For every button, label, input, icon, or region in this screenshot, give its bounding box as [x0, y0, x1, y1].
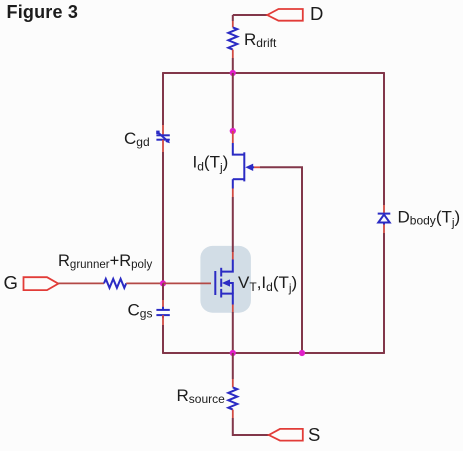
lead below current source — [232, 189, 234, 198]
port S — [269, 429, 303, 441]
wire left rail upper — [162, 73, 164, 125]
wire center rail to current source — [232, 73, 234, 131]
wire arrow row to inner right rail — [260, 167, 302, 353]
wire left rail middle — [162, 152, 164, 283]
gate bar — [214, 271, 216, 295]
diode D_body — [378, 214, 391, 225]
capacitor C_gd (variable) — [156, 132, 169, 142]
lead below C_gd — [162, 140, 164, 152]
wire D down to R_drift — [232, 15, 234, 21]
lead above MOSFET drain — [232, 252, 234, 260]
wire R_drift to top rail — [232, 58, 234, 73]
wire bottom rail to R_source — [232, 353, 234, 379]
channel segments — [220, 268, 222, 277]
lead into current source — [232, 131, 234, 143]
node dot center — [230, 128, 236, 134]
wire G port to resistor — [58, 282, 104, 284]
wire right rail upper — [383, 73, 385, 205]
node dot top rail — [230, 70, 236, 76]
source stub — [221, 294, 233, 305]
capacitor C_gs — [156, 307, 169, 318]
wire top-left corner to D port — [233, 14, 267, 16]
lead to C_gd — [162, 125, 164, 135]
wire left rail below gate node — [162, 283, 164, 300]
node dot bottom inner — [299, 350, 305, 356]
svg-text:D: D — [310, 3, 323, 24]
resistor R_drift — [228, 27, 237, 49]
node dot bottom center — [230, 350, 236, 356]
wire left rail bottom — [162, 325, 164, 353]
bulk arrow — [222, 279, 230, 286]
lead below R_drift — [232, 50, 234, 58]
lead from current source arrow — [254, 166, 260, 168]
node dot gate — [160, 280, 166, 286]
wire resistor to gate node — [126, 282, 163, 284]
lead below R_source — [232, 410, 234, 418]
port D — [267, 9, 303, 21]
svg-text:S: S — [308, 424, 320, 445]
wire top rail — [162, 72, 385, 74]
svg-text:G: G — [4, 272, 18, 293]
wire current source to MOSFET drain — [232, 197, 234, 252]
current source I_d(Tj) — [233, 143, 254, 189]
wire MOSFET source to bottom rail — [232, 312, 234, 353]
lead below MOSFET source — [232, 305, 234, 313]
MOSFET M1 — [215, 260, 233, 305]
lead above R_source — [232, 379, 234, 387]
wire bottom rail — [162, 352, 385, 354]
drain stub — [221, 260, 233, 272]
wire R_source to S port — [233, 418, 269, 435]
wire right rail lower — [383, 233, 385, 353]
resistor R_grunner+R_poly — [104, 279, 126, 288]
lead below C_gs — [162, 315, 164, 325]
lead to C_gs — [162, 300, 164, 310]
bulk tie — [229, 283, 233, 294]
port G — [24, 277, 59, 290]
svg-text:Figure 3: Figure 3 — [7, 2, 79, 22]
resistor R_source — [228, 387, 237, 409]
lead below diode — [383, 225, 385, 234]
wire gate node to MOSFET gate — [163, 282, 211, 284]
lead above diode — [383, 205, 385, 214]
highlight box around MOSFET — [200, 246, 251, 313]
